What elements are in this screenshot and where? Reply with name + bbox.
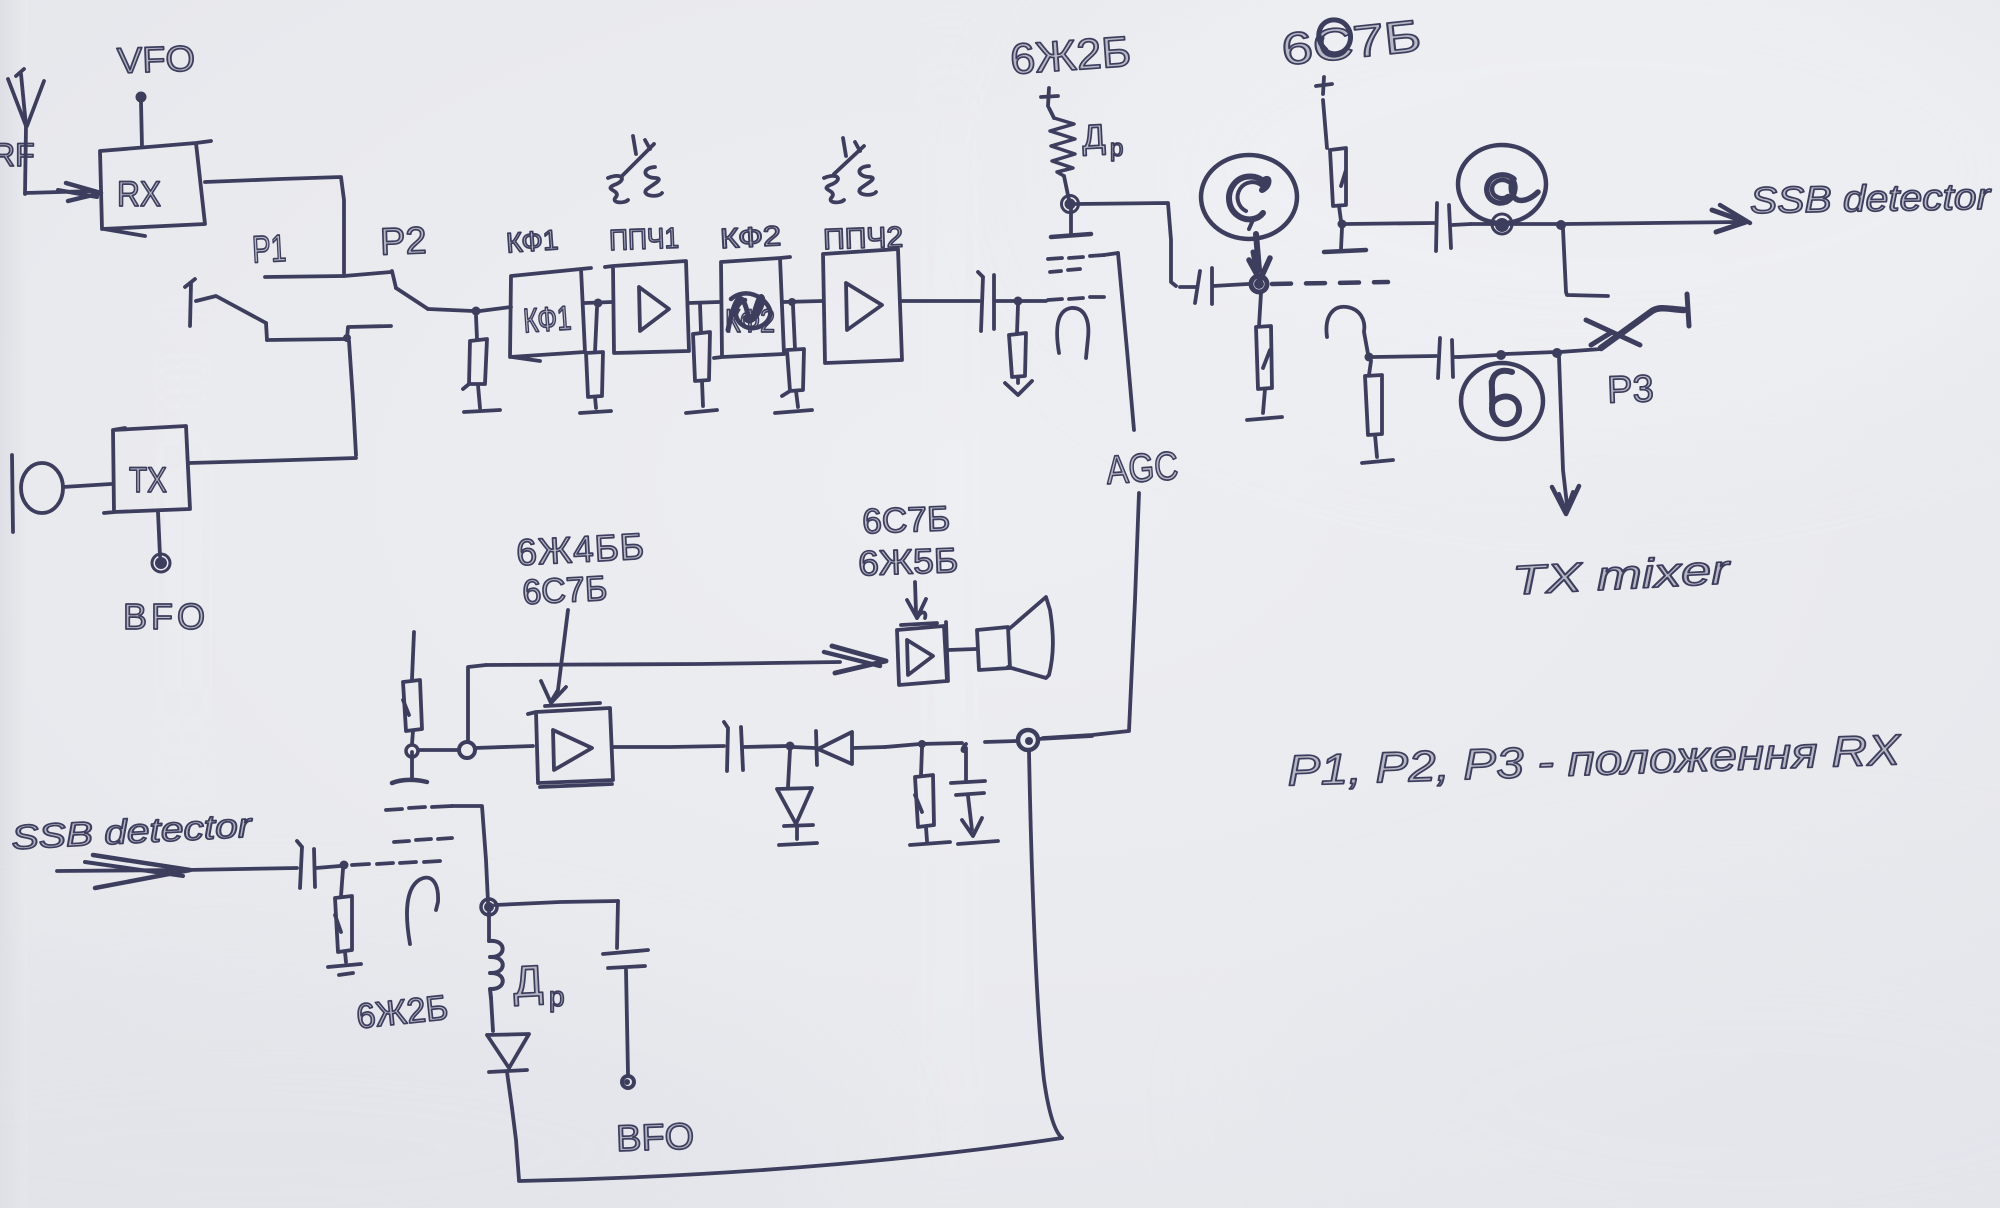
wire loop left	[512, 1108, 519, 1180]
wire antenna to RX	[25, 183, 101, 201]
node b branch	[1552, 348, 1562, 358]
node tube1 grid	[1014, 297, 1023, 306]
node injection	[484, 902, 494, 912]
svg-text:КФ2: КФ2	[719, 220, 782, 254]
resistor KF1 out	[586, 308, 603, 408]
node VFO	[136, 92, 147, 103]
circle node b	[1461, 363, 1543, 439]
arrow label to U3	[541, 610, 568, 703]
filter KF2	[714, 257, 790, 358]
node KF2 out	[788, 298, 796, 306]
node AF plate	[406, 745, 418, 757]
wire TX output	[189, 458, 356, 463]
ground mixer grid	[1247, 417, 1282, 420]
ground mixer in	[328, 964, 361, 975]
wire RX output	[205, 177, 344, 273]
svg-text:P2: P2	[379, 220, 427, 264]
wire grid dashed to U2	[1272, 282, 1388, 284]
svg-text:6Ж2Б: 6Ж2Б	[1009, 28, 1133, 84]
switch P1 arm	[196, 296, 266, 323]
antenna	[8, 69, 44, 194]
capacitor AGC filter	[951, 744, 985, 836]
wire to SSB detector	[1471, 205, 1750, 232]
wire SSB det input	[57, 855, 297, 888]
svg-text:BFO: BFO	[123, 596, 209, 637]
resistor PPCH1 out	[693, 304, 710, 406]
diode D1 series	[793, 731, 885, 765]
wire U5 injection grid	[452, 806, 488, 902]
svg-text:P3: P3	[1606, 368, 1654, 412]
wire VFO to RX	[141, 102, 142, 147]
diode D3	[487, 1034, 529, 1108]
wire AGC loop down	[1029, 751, 1062, 1138]
resistor tube1 grid	[1009, 305, 1026, 383]
wire PPCH1 to KF2	[689, 302, 719, 303]
capacitor C5	[724, 722, 787, 771]
svg-text:р: р	[1110, 135, 1123, 162]
resistor AF plate load	[403, 632, 422, 744]
switch P3 arm	[1586, 294, 1689, 348]
node U1 plate	[1065, 199, 1076, 210]
svg-text:P1: P1	[251, 228, 287, 272]
resistor U2 cathode	[1365, 361, 1382, 457]
capacitor BFO	[603, 901, 648, 1074]
wire to RC	[885, 743, 962, 747]
resistor KF2 out	[782, 306, 804, 407]
node AGC takeoff	[1018, 730, 1038, 750]
tube U5 6Zh2B plate	[392, 752, 427, 783]
wire loop bottom	[519, 1138, 1062, 1181]
node P1 lower	[343, 334, 351, 342]
ground KF1 out	[580, 411, 611, 413]
wire speaker feed	[486, 646, 886, 673]
label KF2 inside scribbled	[725, 293, 775, 339]
wire cathode out	[1373, 356, 1436, 357]
tube U1 grid dashes	[1048, 255, 1104, 300]
wire P2 to KF1	[428, 307, 511, 311]
ground U2 cathode	[1362, 460, 1393, 463]
node diode junction	[786, 742, 795, 751]
svg-text:AGC: AGC	[1105, 444, 1180, 493]
tube U1 6Zh2B plate	[1051, 205, 1091, 237]
svg-text:BFO: BFO	[615, 1115, 694, 1159]
wire PPCH2 to cap	[902, 299, 979, 303]
node U2 cathode	[1365, 353, 1374, 362]
tuning symbol PPCH2	[824, 138, 876, 202]
amplifier PPCH1	[605, 261, 689, 353]
coil Dr bottom	[489, 912, 503, 1031]
node RC1	[918, 740, 926, 748]
wire RC to AGC node	[985, 741, 1018, 742]
tube U2 cathode	[1326, 307, 1368, 354]
node BFO	[155, 557, 167, 569]
ground after P2	[464, 410, 500, 412]
detector U4 box	[897, 622, 948, 685]
tube U5 cathode	[407, 878, 438, 944]
AGC line lower	[1043, 493, 1139, 738]
wire AF to amp	[475, 746, 533, 748]
wire branch up to speaker line	[468, 665, 486, 742]
amplifier U3 AF	[528, 703, 613, 787]
arrow label to det	[907, 582, 926, 618]
svg-text:ППЧ2: ППЧ2	[823, 222, 904, 257]
wire U1 screen to AGC	[1104, 253, 1118, 255]
wire KF1 to PPCH1	[585, 302, 612, 303]
svg-text:Д: Д	[1081, 118, 1106, 157]
block TX	[104, 426, 190, 513]
diode D2 shunt	[777, 750, 813, 839]
resistor mixer grid	[1256, 293, 1272, 413]
svg-text:КФ1: КФ1	[505, 224, 559, 259]
ground KF2 out	[775, 410, 812, 413]
node branch	[1556, 220, 1566, 230]
svg-text:6С7Б: 6С7Б	[862, 499, 951, 541]
wire lower to b	[1459, 349, 1601, 357]
wire det to speaker	[948, 649, 976, 650]
capacitor C2	[1180, 268, 1248, 304]
wire plus to resistor	[1323, 100, 1327, 148]
ground arrow tube1 grid	[1005, 381, 1032, 395]
node KF1 out	[594, 299, 603, 308]
capacitor C3	[1436, 203, 1471, 251]
wire AF amp to cap	[613, 746, 724, 747]
wire injection to cap	[495, 901, 618, 905]
tube U1 cathode	[1057, 308, 1088, 358]
filter KF1	[510, 268, 591, 361]
resistor AGC filter	[915, 748, 934, 841]
resistor after P2	[463, 316, 487, 408]
choke Dr coil	[1049, 108, 1075, 200]
wire TX riser	[349, 341, 356, 455]
arrow C to node	[1249, 234, 1270, 280]
wire AF main left	[419, 748, 459, 752]
tube U2 plate bar	[1324, 228, 1366, 252]
circle node a	[1458, 145, 1546, 223]
svg-text:КФ1: КФ1	[522, 299, 573, 340]
svg-text:6Ж4ББ: 6Ж4ББ	[515, 526, 646, 574]
speaker	[977, 597, 1053, 678]
circle node C	[1201, 155, 1297, 239]
ground capacitor AGC	[958, 841, 998, 844]
AGC line upper	[1118, 253, 1134, 430]
plus U2	[1316, 77, 1332, 94]
svg-text:ППЧ1: ППЧ1	[609, 223, 680, 257]
node mixer grid in	[340, 861, 349, 870]
svg-text:VFO: VFO	[116, 37, 195, 81]
choke Dr plus	[1041, 88, 1058, 106]
wire U2 plate out	[1346, 223, 1434, 224]
svg-text:р: р	[549, 981, 565, 1012]
switch P1 top bar	[265, 276, 344, 277]
wire U1 plate to cap	[1076, 203, 1176, 286]
microphone	[12, 455, 111, 532]
resistor mixer in	[335, 869, 352, 962]
wire TX to BFO	[158, 512, 160, 556]
ground resistor AGC	[910, 842, 950, 845]
capacitor C4	[1438, 338, 1459, 378]
wire TX mixer down	[1552, 357, 1579, 514]
node after P2	[472, 307, 481, 316]
svg-text:6С7Б: 6С7Б	[521, 569, 608, 612]
capacitor coupling IF	[978, 272, 1046, 331]
ground PPCH1 out	[686, 410, 717, 413]
svg-text:6Ж5Б: 6Ж5Б	[858, 541, 959, 583]
svg-text:RX: RX	[117, 175, 161, 214]
capacitor input	[297, 841, 340, 888]
amplifier PPCH2	[823, 249, 902, 363]
switch P1 lower throw	[266, 323, 391, 340]
node U2 plate	[1338, 220, 1347, 229]
node a bottom	[1495, 218, 1509, 232]
tuning symbol PPCH1	[608, 136, 662, 202]
node BFO bottom	[622, 1076, 634, 1088]
svg-text:Д: Д	[512, 957, 544, 1007]
svg-text:RF: RF	[0, 137, 35, 173]
node b top	[1496, 350, 1506, 360]
wire AGC node to corner	[1038, 736, 1092, 739]
label 6S7B top	[1279, 10, 1424, 75]
wire branch down	[1563, 229, 1608, 296]
wire bar to P2	[344, 271, 396, 288]
switch P1 contact	[185, 279, 195, 326]
node mixer grid	[1251, 276, 1267, 292]
block RX	[100, 141, 211, 236]
wire KF2 to PPCH2	[784, 301, 822, 302]
svg-text:SSB detector: SSB detector	[1750, 176, 1993, 221]
resistor U2 plate	[1330, 148, 1346, 221]
tube U5 grid dashes	[352, 806, 452, 865]
ground diode D2	[779, 843, 817, 845]
node AF branch	[459, 742, 475, 758]
svg-text:TX: TX	[129, 461, 167, 500]
switch P2 arm	[396, 288, 428, 309]
